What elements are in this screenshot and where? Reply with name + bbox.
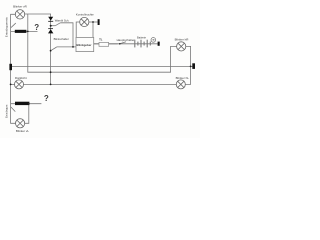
svg-text:Blinker vL: Blinker vL bbox=[16, 129, 30, 133]
svg-text:TL: TL bbox=[99, 38, 103, 42]
svg-text:Blinker hR: Blinker hR bbox=[175, 38, 190, 42]
svg-text:Blinker vR: Blinker vR bbox=[13, 4, 28, 8]
svg-text:?: ? bbox=[44, 94, 49, 103]
svg-text:Hauptschalter: Hauptschalter bbox=[117, 38, 135, 42]
svg-text:Blinker hL: Blinker hL bbox=[176, 76, 190, 80]
svg-text:Rücklicht: Rücklicht bbox=[15, 76, 27, 80]
svg-text:Entstörgummis: Entstörgummis bbox=[4, 17, 8, 38]
svg-text:Blinkgeber: Blinkgeber bbox=[77, 43, 93, 47]
svg-text:Entstörgum: Entstörgum bbox=[4, 105, 8, 118]
svg-text:Kontrolleuchte: Kontrolleuchte bbox=[76, 13, 94, 17]
svg-text:?: ? bbox=[34, 23, 39, 32]
svg-text:Batterie: Batterie bbox=[137, 35, 146, 39]
svg-text:Blinkschalter: Blinkschalter bbox=[54, 37, 69, 41]
svg-text:Warnbl Sch.: Warnbl Sch. bbox=[55, 19, 70, 23]
